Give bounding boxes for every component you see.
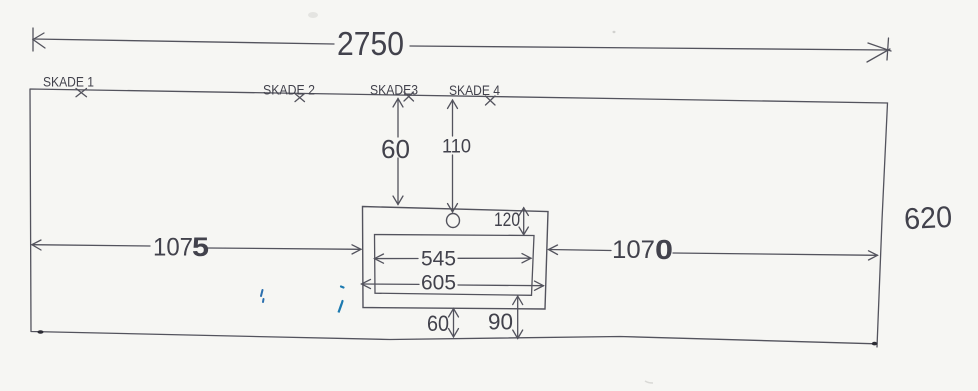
mark X skade 2 — [295, 94, 305, 102]
svg-text:110: 110 — [442, 137, 471, 158]
dimension line 545 — [375, 254, 532, 264]
svg-text:107: 107 — [612, 236, 655, 264]
svg-text:SKADE 4: SKADE 4 — [449, 83, 500, 98]
dimension line 60 top — [393, 99, 403, 205]
svg-text:2750: 2750 — [337, 25, 404, 62]
svg-text:120: 120 — [494, 210, 520, 231]
dimension line 1075 — [32, 240, 361, 254]
svg-text:60: 60 — [381, 134, 410, 164]
svg-text:90: 90 — [488, 309, 513, 335]
dimension line 90 — [513, 296, 523, 338]
mark X skade 4 — [486, 96, 496, 105]
dimension line 1070 — [549, 245, 878, 260]
svg-text:545: 545 — [421, 248, 456, 271]
dimension line 2750 — [33, 28, 891, 62]
svg-text:0: 0 — [655, 234, 673, 265]
mark X skade 3 — [404, 92, 414, 101]
svg-text:107: 107 — [153, 234, 193, 262]
hole circle — [447, 214, 460, 228]
faint smudge bottom — [645, 381, 653, 383]
svg-text:605: 605 — [421, 272, 456, 295]
svg-text:60: 60 — [427, 311, 449, 336]
dimension line 120 — [519, 208, 528, 235]
cutout inner rectangle — [375, 235, 535, 296]
blue ink mark right — [339, 287, 344, 313]
ink dot bottom-right corner — [872, 342, 878, 346]
ink dot bottom-left corner — [38, 330, 44, 334]
faint pencil smudge top — [308, 12, 318, 18]
cutout outer rectangle — [363, 207, 549, 310]
panel outline — [30, 89, 888, 347]
dimension line 60 bottom — [449, 309, 459, 338]
svg-text:SKADE 2: SKADE 2 — [263, 83, 315, 98]
blue ink mark left — [261, 290, 264, 302]
mark X skade 1 — [76, 89, 87, 97]
dimension line 110 — [448, 100, 458, 212]
svg-text:620: 620 — [903, 201, 953, 236]
svg-text:5: 5 — [192, 232, 209, 262]
svg-text:SKADE 1: SKADE 1 — [43, 75, 94, 90]
dimension line 605 — [362, 279, 544, 290]
